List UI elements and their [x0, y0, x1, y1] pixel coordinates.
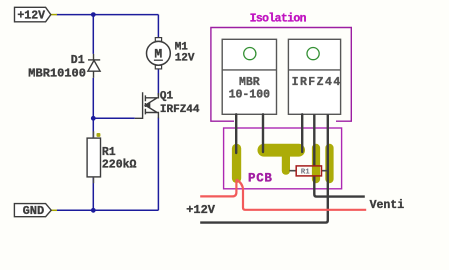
svg-text:+12V: +12V: [186, 203, 216, 217]
svg-text:Venti: Venti: [370, 199, 405, 212]
svg-text:MBR10100: MBR10100: [28, 66, 86, 80]
svg-text:+12V: +12V: [17, 10, 45, 23]
svg-text:10-100: 10-100: [229, 88, 271, 101]
svg-text:MBR: MBR: [239, 76, 260, 89]
svg-text:GND: GND: [23, 204, 45, 218]
svg-text:Isolation: Isolation: [250, 13, 307, 26]
svg-text:IRFZ44: IRFZ44: [292, 76, 342, 89]
svg-text:PCB: PCB: [248, 171, 273, 185]
svg-text:IRFZ44: IRFZ44: [160, 104, 200, 116]
svg-text:12V: 12V: [175, 53, 195, 65]
svg-text:R1: R1: [301, 169, 311, 177]
svg-text:Q1: Q1: [160, 91, 174, 103]
svg-text:M: M: [154, 47, 162, 62]
svg-text:220kΩ: 220kΩ: [102, 158, 137, 171]
svg-text:D1: D1: [71, 54, 85, 67]
svg-text:R1: R1: [102, 146, 116, 159]
